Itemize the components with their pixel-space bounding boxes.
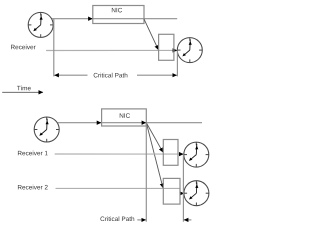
label NIC (top box): [112, 8, 122, 13]
clock C5 (receiver 2): [184, 181, 209, 206]
label NIC (bottom box): [120, 113, 130, 118]
wire: diagonal NIC2 to receiver1 buffer: [146, 123, 163, 153]
wire: timeline after NIC1: [144, 18, 177, 20]
dimension arrow right (bottom, points left): [184, 219, 192, 221]
extension line left (top critical path): [53, 19, 55, 77]
wire: timeline from clock C3 to NIC2: [58, 122, 102, 124]
wire: diagonal NIC2 to receiver2 buffer: [146, 123, 163, 188]
receiver buffer box B3: [163, 178, 180, 204]
extension line right (bottom critical path): [182, 154, 184, 221]
wire: timeline after NIC2: [146, 122, 202, 124]
wire: timeline from clock C1 to NIC1: [52, 18, 93, 20]
label Receiver: [11, 45, 36, 50]
extension line right (top critical path): [176, 51, 178, 77]
dimension arrow left (top): [54, 74, 87, 76]
receiver buffer box B1: [159, 34, 174, 60]
label Critical Path (top): [94, 73, 128, 78]
wire: receiver1 line to clock C4: [55, 153, 184, 155]
wire: buffer B3 to clock C5: [180, 192, 184, 194]
NIC box U2: [102, 109, 147, 126]
wire: timeline inside NIC1: [93, 18, 144, 20]
wire: time axis arrow: [2, 91, 43, 93]
wire: receiver2 line to buffer B3: [56, 188, 181, 193]
wire: diagonal NIC1 to receiver buffer: [144, 19, 159, 50]
clock C4 (receiver 1): [184, 142, 209, 167]
label Receiver 2: [18, 185, 48, 190]
dimension arrow left (bottom, points right): [137, 219, 146, 221]
NIC box U1: [93, 6, 144, 24]
clock C1 (sender, top-left): [28, 12, 53, 37]
clock C3 (sender, bottom-left): [34, 117, 59, 142]
wire: receiver line to clock C2: [46, 49, 177, 51]
clock C2 (receiver, top-right): [177, 38, 202, 63]
wire: timeline inside NIC2 with arrow at right edge: [102, 122, 147, 124]
label Time: [17, 86, 31, 91]
receiver buffer box B2: [163, 140, 178, 166]
label Receiver 1: [18, 151, 48, 156]
label Critical Path (bottom): [100, 216, 134, 221]
dimension arrow right (top): [137, 74, 177, 76]
extension line left (bottom critical path): [145, 123, 147, 222]
